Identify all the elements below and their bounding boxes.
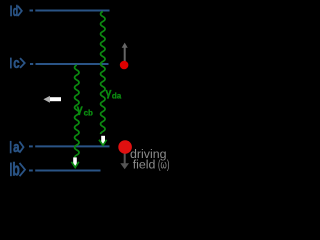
- svg-text:γ: γ: [77, 104, 84, 116]
- svg-text:cb: cb: [84, 109, 93, 118]
- svg-text:(ω): (ω): [158, 157, 170, 171]
- svg-text:c: c: [13, 56, 19, 72]
- svg-text:field: field: [133, 157, 156, 171]
- svg-text:da: da: [112, 91, 122, 100]
- svg-text:b: b: [12, 160, 20, 180]
- svg-text:d: d: [13, 3, 18, 20]
- svg-text:a: a: [13, 139, 20, 156]
